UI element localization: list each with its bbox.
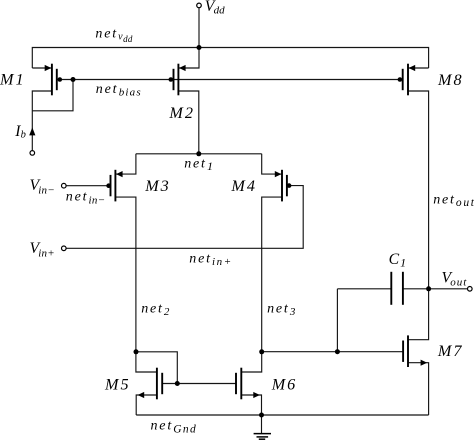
svg-text:M3: M3 [144, 177, 171, 195]
svg-text:netvdd: netvdd [95, 26, 132, 44]
svg-text:net1: net1 [184, 157, 213, 173]
svg-text:netbias: netbias [96, 82, 142, 99]
svg-text:Vin−: Vin− [30, 177, 55, 196]
svg-text:net2: net2 [141, 302, 170, 319]
svg-text:Vdd: Vdd [205, 0, 225, 16]
svg-text:M2: M2 [168, 104, 195, 122]
svg-text:M4: M4 [230, 177, 257, 195]
svg-text:Vout: Vout [442, 270, 468, 289]
svg-text:netin−: netin− [66, 190, 106, 207]
svg-text:netGnd: netGnd [151, 418, 198, 435]
svg-text:Vin+: Vin+ [30, 240, 55, 259]
svg-text:netout: netout [433, 192, 474, 209]
svg-text:Ib: Ib [14, 123, 26, 141]
svg-text:C1: C1 [389, 251, 406, 270]
svg-text:netin+: netin+ [189, 251, 232, 268]
svg-text:M1: M1 [0, 71, 26, 89]
svg-text:M8: M8 [437, 71, 464, 89]
svg-text:M6: M6 [271, 375, 298, 393]
svg-text:M7: M7 [437, 342, 464, 360]
svg-text:net3: net3 [267, 302, 296, 319]
svg-text:M5: M5 [104, 375, 131, 393]
